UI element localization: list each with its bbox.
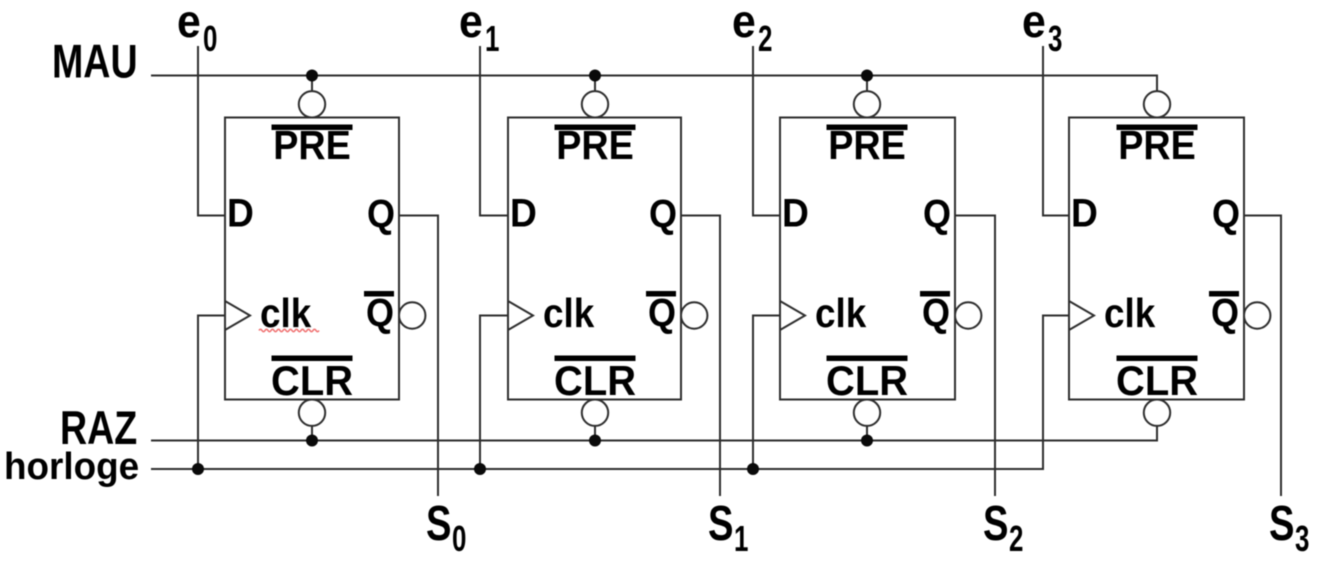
wire e1 to D input of U2 bbox=[480, 46, 508, 216]
pin label PRE (active-low) U1 bbox=[272, 125, 353, 131]
svg-text:e: e bbox=[1022, 0, 1046, 47]
junction on MAU at x=595 bbox=[589, 70, 601, 82]
CLR inversion bubble U3 bbox=[854, 400, 880, 426]
Qbar inversion bubble U2 bbox=[681, 302, 707, 328]
junction on horloge at x=198 bbox=[192, 463, 204, 475]
wire MAU stub to PRE bubble of U2 bbox=[594, 76, 596, 92]
wire clk feed from horloge to U1 bbox=[198, 316, 225, 470]
svg-text:PRE: PRE bbox=[556, 123, 634, 169]
junction on horloge at x=753 bbox=[747, 463, 759, 475]
wire RAZ bus bbox=[151, 426, 1157, 441]
pin label Qbar U1 bbox=[364, 291, 394, 297]
svg-text:PRE: PRE bbox=[273, 123, 351, 169]
svg-text:Q: Q bbox=[649, 192, 677, 236]
junction on RAZ at x=595 bbox=[589, 435, 601, 447]
wire MAU bus bbox=[151, 76, 1157, 92]
junction on MAU at x=312 bbox=[306, 70, 318, 82]
pin label CLR (active-low) U2 bbox=[555, 356, 636, 362]
flip-flop U3 box bbox=[780, 118, 955, 400]
CLR inversion bubble U2 bbox=[582, 400, 608, 426]
svg-text:clk: clk bbox=[815, 291, 867, 336]
svg-text:S: S bbox=[1269, 497, 1294, 552]
wire RAZ stub to CLR bubble of U1 bbox=[311, 426, 313, 441]
PRE inversion bubble U2 bbox=[582, 91, 608, 117]
svg-text:MAU: MAU bbox=[52, 36, 138, 89]
clk edge-trigger triangle U2 bbox=[508, 301, 533, 330]
svg-text:3: 3 bbox=[1295, 519, 1309, 559]
junction on MAU at x=867 bbox=[861, 70, 873, 82]
pin label CLR (active-low) U4 bbox=[1117, 356, 1198, 362]
svg-text:horloge: horloge bbox=[4, 444, 139, 487]
wire Q output of U2 to S1 bbox=[681, 216, 720, 497]
pin label Qbar U2 bbox=[646, 291, 676, 297]
svg-text:PRE: PRE bbox=[1118, 123, 1196, 169]
svg-text:Q: Q bbox=[367, 192, 395, 236]
svg-text:D: D bbox=[510, 191, 537, 236]
PRE inversion bubble U1 bbox=[299, 91, 325, 117]
flip-flop U2 box bbox=[508, 118, 681, 400]
CLR inversion bubble U4 bbox=[1144, 400, 1170, 426]
svg-text:Q: Q bbox=[1211, 291, 1239, 335]
svg-text:Q: Q bbox=[1212, 192, 1240, 236]
svg-text:S: S bbox=[983, 497, 1008, 552]
svg-text:2: 2 bbox=[1009, 519, 1023, 559]
svg-text:2: 2 bbox=[758, 19, 772, 59]
svg-text:CLR: CLR bbox=[554, 357, 636, 404]
wire horloge bus bbox=[151, 316, 1069, 470]
pin label CLR (active-low) U3 bbox=[827, 356, 908, 362]
svg-text:CLR: CLR bbox=[1116, 357, 1198, 404]
junction on RAZ at x=867 bbox=[861, 435, 873, 447]
svg-text:1: 1 bbox=[485, 19, 499, 59]
svg-text:D: D bbox=[782, 191, 809, 236]
Qbar inversion bubble U3 bbox=[955, 302, 981, 328]
wire Q output of U4 to S3 bbox=[1244, 216, 1281, 497]
wire e0 to D input of U1 bbox=[198, 46, 225, 216]
Qbar inversion bubble U4 bbox=[1244, 302, 1270, 328]
clk edge-trigger triangle U3 bbox=[780, 301, 805, 330]
wire clk feed from horloge to U3 bbox=[753, 316, 780, 470]
svg-text:Q: Q bbox=[923, 192, 951, 236]
flip-flop U1 box bbox=[225, 118, 399, 400]
PRE inversion bubble U3 bbox=[854, 91, 880, 117]
junction on RAZ at x=312 bbox=[306, 435, 318, 447]
svg-text:CLR: CLR bbox=[826, 357, 908, 404]
pin label PRE (active-low) U2 bbox=[555, 125, 636, 131]
clk edge-trigger triangle U1 bbox=[225, 301, 250, 330]
svg-text:0: 0 bbox=[452, 519, 466, 559]
pin label CLR (active-low) U1 bbox=[272, 356, 353, 362]
svg-text:3: 3 bbox=[1048, 19, 1062, 59]
svg-text:Q: Q bbox=[648, 291, 676, 335]
flip-flop U4 box bbox=[1069, 118, 1244, 400]
svg-text:clk: clk bbox=[1104, 291, 1156, 336]
wire RAZ stub to CLR bubble of U2 bbox=[594, 426, 596, 441]
svg-text:e: e bbox=[177, 0, 201, 47]
svg-text:D: D bbox=[227, 191, 254, 236]
svg-text:D: D bbox=[1071, 191, 1098, 236]
svg-text:Q: Q bbox=[922, 291, 950, 335]
wire Q output of U1 to S0 bbox=[399, 216, 438, 497]
wire e2 to D input of U3 bbox=[753, 46, 780, 216]
wire MAU stub to PRE bubble of U3 bbox=[866, 76, 868, 92]
svg-text:S: S bbox=[708, 497, 733, 552]
pin label Qbar U4 bbox=[1209, 291, 1239, 297]
svg-text:Q: Q bbox=[366, 291, 394, 335]
svg-text:S: S bbox=[426, 497, 451, 552]
wire Q output of U3 to S2 bbox=[955, 216, 995, 497]
junction on horloge at x=480 bbox=[474, 463, 486, 475]
CLR inversion bubble U1 bbox=[299, 400, 325, 426]
pin label PRE (active-low) U3 bbox=[827, 125, 908, 131]
svg-text:e: e bbox=[732, 0, 756, 47]
svg-text:PRE: PRE bbox=[828, 123, 906, 169]
wire RAZ stub to CLR bubble of U3 bbox=[866, 426, 868, 441]
Qbar inversion bubble U1 bbox=[399, 302, 425, 328]
wire MAU stub to PRE bubble of U1 bbox=[311, 76, 313, 92]
svg-text:CLR: CLR bbox=[271, 357, 353, 404]
svg-text:e: e bbox=[459, 0, 483, 47]
svg-text:0: 0 bbox=[203, 19, 217, 59]
red spellcheck squiggle under clk U1 bbox=[259, 329, 319, 332]
clk edge-trigger triangle U4 bbox=[1069, 301, 1094, 330]
pin label Qbar U3 bbox=[920, 291, 950, 297]
svg-text:clk: clk bbox=[543, 291, 595, 336]
wire clk feed from horloge to U2 bbox=[480, 316, 508, 470]
svg-text:1: 1 bbox=[734, 519, 748, 559]
pin label PRE (active-low) U4 bbox=[1117, 125, 1198, 131]
wire e3 to D input of U4 bbox=[1043, 46, 1069, 216]
PRE inversion bubble U4 bbox=[1144, 91, 1170, 117]
